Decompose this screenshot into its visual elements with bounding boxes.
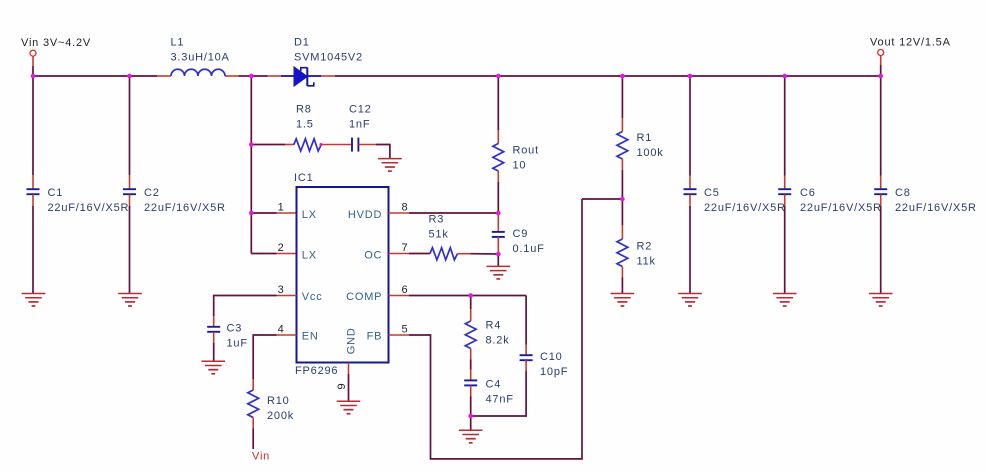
wire bus to C1 (32, 76, 34, 175)
wire Rout top pin (497, 130, 499, 144)
wire pin2 stub (277, 253, 297, 255)
wire bus to R1 (621, 76, 623, 118)
wire OC to R3 (409, 253, 430, 255)
wire bus to C8 (880, 76, 882, 176)
junction Vin-C1 (31, 74, 36, 79)
svg-text:4: 4 (278, 324, 285, 336)
wire R2 to ground (621, 278, 623, 294)
svg-text:1.5: 1.5 (296, 119, 314, 131)
capacitor C3 (207, 327, 220, 332)
junction C2 (127, 74, 132, 79)
wire R3 to C9 node (471, 253, 499, 255)
wire C10 top pin (525, 345, 527, 356)
wire C5 to ground (689, 206, 691, 294)
wire pin5 stub (389, 334, 410, 336)
svg-text:1nF: 1nF (349, 119, 370, 131)
wire C3 top pin (213, 316, 215, 327)
wire L1 left pin (157, 75, 171, 77)
wire C5 top pin (689, 176, 691, 190)
wire Vin terminal stub (32, 56, 34, 66)
ground R2 (611, 294, 635, 307)
svg-text:5: 5 (402, 324, 409, 336)
wire C1 bottom pin (32, 195, 34, 207)
wire C4 top pin (470, 370, 472, 381)
capacitor C8 (874, 189, 887, 194)
ground C4 (459, 430, 483, 443)
wire Vin drop (32, 66, 34, 76)
svg-text:Rout: Rout (513, 145, 539, 157)
svg-text:D1: D1 (294, 37, 310, 49)
wire C4 to node (470, 397, 472, 417)
wire SW to LX2 (250, 213, 252, 254)
svg-text:C2: C2 (144, 187, 160, 199)
wire Rout bottom pin (497, 171, 499, 182)
svg-text:R1: R1 (637, 132, 653, 144)
wire R4 top pin (470, 309, 472, 321)
wire pin1 stub (277, 212, 297, 214)
junction R8 branch (249, 142, 254, 147)
terminal Vin (30, 50, 36, 56)
resistor R4 (465, 321, 476, 349)
svg-text:C6: C6 (800, 187, 816, 199)
svg-text:LX: LX (302, 249, 317, 261)
svg-text:200k: 200k (267, 410, 294, 422)
svg-text:C9: C9 (513, 228, 529, 240)
svg-text:100k: 100k (637, 147, 664, 159)
wire pin4 stub (277, 334, 297, 336)
wire R4 to C4 (470, 360, 472, 370)
ground C3 (202, 361, 226, 374)
svg-text:22uF/16V/X5R: 22uF/16V/X5R (704, 202, 786, 214)
svg-text:OC: OC (364, 249, 382, 261)
junction R1 top (620, 74, 625, 79)
svg-text:3.3uH/10A: 3.3uH/10A (171, 52, 230, 64)
svg-text:L1: L1 (171, 37, 185, 49)
wire C2 to ground (129, 206, 131, 294)
svg-text:R8: R8 (296, 104, 312, 116)
wire R10 top pin (252, 379, 254, 390)
wire pin9 stub (348, 363, 350, 375)
svg-text:C12: C12 (349, 104, 372, 116)
svg-text:R10: R10 (267, 395, 290, 407)
capacitor C4 (464, 380, 477, 385)
wire node to ground (470, 416, 472, 430)
wire C1 top pin (32, 175, 34, 189)
svg-text:7: 7 (402, 242, 409, 254)
wire bus to C6 (784, 76, 786, 176)
wire Vin bus left (33, 75, 157, 77)
capacitor C12 (352, 138, 358, 152)
wire D1 anode pin (268, 75, 282, 77)
wire Vout terminal stub (880, 56, 882, 65)
wire C8 top pin (880, 176, 882, 190)
terminal Vout (878, 50, 884, 56)
wire C8 to ground (880, 206, 882, 294)
wire SW node down (250, 76, 252, 145)
svg-text:22uF/16V/X5R: 22uF/16V/X5R (144, 202, 226, 214)
wire Vout drop (880, 65, 882, 76)
junction C9-R3-ground (496, 252, 501, 257)
wire R2 bottom pin (621, 267, 623, 278)
svg-text:1: 1 (278, 202, 285, 214)
junction R1-R2-FB (620, 197, 625, 202)
junction Rout top (496, 74, 501, 79)
wire C8 bottom pin (880, 195, 882, 207)
svg-text:IC1: IC1 (294, 172, 314, 184)
wire pin9 to ground (348, 374, 350, 401)
wire C6 bottom pin (784, 195, 786, 207)
svg-text:R4: R4 (486, 320, 502, 332)
svg-text:3: 3 (278, 284, 285, 296)
wire FB route (409, 199, 582, 459)
svg-text:C1: C1 (48, 187, 64, 199)
resistor R2 (617, 239, 628, 267)
svg-text:C8: C8 (895, 187, 911, 199)
wire Rout to HVDD node (497, 182, 499, 213)
wire R1 top pin (621, 118, 623, 132)
svg-text:C4: C4 (486, 378, 502, 390)
svg-text:22uF/16V/X5R: 22uF/16V/X5R (800, 202, 882, 214)
svg-text:Vcc: Vcc (302, 291, 323, 303)
wire C4 bottom pin (470, 385, 472, 396)
ground C1 (22, 294, 46, 307)
wire D1 cathode pin (321, 75, 335, 77)
svg-text:22uF/16V/X5R: 22uF/16V/X5R (895, 202, 977, 214)
wire SW to D1 (251, 75, 267, 77)
capacitor C9 (492, 232, 505, 237)
ground C12 (378, 159, 402, 172)
svg-text:8: 8 (402, 202, 409, 214)
wire C1 to ground (32, 206, 34, 294)
svg-text:Vout 12V/1.5A: Vout 12V/1.5A (870, 37, 951, 49)
junction LX1 branch (249, 211, 254, 216)
wire C10 to C4 node (471, 371, 526, 416)
junction C5 (688, 74, 693, 79)
wire pin7 stub (389, 253, 410, 255)
wire pin8 stub (389, 212, 410, 214)
capacitor C6 (778, 189, 791, 194)
wire pin6 stub (389, 295, 410, 297)
wire C12 to ground (376, 145, 390, 159)
inductor L1 (171, 69, 225, 76)
op-amp U1 IC1 FP6296 box (297, 187, 389, 363)
wire FB to divider (582, 198, 622, 200)
wire C9 top pin (497, 213, 499, 232)
resistor R3 (430, 248, 458, 260)
wire bus to Rout (497, 76, 499, 130)
svg-text:11k: 11k (637, 256, 656, 268)
wire divider to R2 (621, 199, 623, 225)
wire R4 bottom pin (470, 349, 472, 360)
ground C8 (869, 294, 893, 307)
wire C9 to ground (497, 254, 499, 266)
capacitor C10 (520, 355, 533, 360)
svg-text:GND: GND (346, 327, 358, 354)
svg-text:51k: 51k (429, 228, 449, 240)
wire pin3 stub (277, 295, 297, 297)
svg-text:9: 9 (336, 383, 348, 390)
wire EN to R10 (253, 335, 276, 379)
svg-text:LX: LX (302, 209, 317, 221)
junction C4-C10-ground (468, 414, 473, 419)
ground C6 (773, 294, 797, 307)
svg-text:HVDD: HVDD (348, 209, 382, 221)
junction SW (249, 74, 254, 79)
wire node to pin2 (251, 253, 276, 255)
junction HVDD-Rout-C9 (496, 211, 501, 216)
svg-text:COMP: COMP (346, 291, 382, 303)
svg-text:C10: C10 (540, 351, 563, 363)
wire R10 bottom pin (252, 418, 254, 429)
svg-text:C3: C3 (227, 323, 243, 335)
wire L1 right pin (225, 75, 239, 77)
wire COMP corner to C10 (525, 296, 527, 345)
wire HVDD (409, 212, 498, 214)
wire C6 top pin (784, 176, 786, 190)
wire R1 bottom pin (621, 159, 623, 170)
capacitor C1 (27, 189, 40, 194)
ground C9 (487, 266, 511, 279)
junction COMP-R4 (468, 293, 473, 298)
resistor Rout (493, 144, 504, 172)
wire COMP (409, 295, 526, 297)
svg-text:10: 10 (513, 160, 527, 172)
capacitor C2 (123, 189, 136, 194)
wire C3 to ground (213, 343, 215, 361)
wire L1 to node SW (239, 75, 252, 77)
ground C5 (678, 294, 702, 307)
svg-text:0.1uF: 0.1uF (513, 243, 545, 255)
svg-text:SVM1045V2: SVM1045V2 (294, 52, 363, 64)
wire R1 to divider node (621, 170, 623, 199)
svg-text:10pF: 10pF (540, 366, 568, 378)
svg-text:1uF: 1uF (227, 338, 248, 350)
wire C9 bottom pin (497, 237, 499, 254)
wire R8 left pin (285, 144, 294, 146)
wire Vout bus (335, 75, 881, 77)
resistor R8 (294, 139, 322, 151)
wire C10 bottom pin (525, 360, 527, 371)
wire R3 right pin (457, 253, 470, 255)
svg-text:C5: C5 (704, 187, 720, 199)
svg-text:8.2k: 8.2k (486, 335, 510, 347)
wire bus to C2 (129, 76, 131, 175)
wire SW to LX1 (250, 145, 252, 214)
wire SW to R8 (251, 144, 285, 146)
wire C3 bottom pin (213, 332, 215, 343)
wire C5 bottom pin (689, 195, 691, 207)
ground C2 (118, 294, 142, 307)
svg-text:R3: R3 (429, 213, 445, 225)
svg-text:2: 2 (278, 242, 285, 254)
wire C12 right pin (358, 144, 376, 146)
wire node to pin1 (251, 212, 276, 214)
svg-text:FB: FB (367, 331, 383, 343)
wire R8 to C12 (321, 144, 352, 146)
resistor R10 (248, 390, 259, 418)
wire bus to C5 (689, 76, 691, 176)
svg-text:Vin: Vin (252, 451, 270, 463)
svg-text:Vin 3V~4.2V: Vin 3V~4.2V (21, 37, 91, 49)
svg-text:R2: R2 (637, 241, 653, 253)
resistor R1 (617, 132, 628, 160)
junction C6 (782, 74, 787, 79)
svg-text:47nF: 47nF (486, 393, 514, 405)
wire C2 top pin (129, 175, 131, 189)
node R8-C12 (319, 143, 322, 146)
wire Vcc to C3 (214, 296, 277, 317)
wire R10 to Vin (252, 429, 254, 450)
svg-text:6: 6 (402, 284, 409, 296)
svg-text:EN: EN (302, 331, 319, 343)
wire COMP to R4 (470, 296, 472, 310)
diode D1 (281, 67, 321, 86)
ground IC1 (337, 401, 361, 414)
wire C2 bottom pin (129, 195, 131, 207)
svg-text:22uF/16V/X5R: 22uF/16V/X5R (48, 202, 130, 214)
svg-text:FP6296: FP6296 (295, 365, 338, 377)
junction C8-Vout (878, 74, 883, 79)
capacitor C5 (684, 189, 697, 194)
wire C6 to ground (784, 206, 786, 294)
wire R2 top pin (621, 225, 623, 239)
